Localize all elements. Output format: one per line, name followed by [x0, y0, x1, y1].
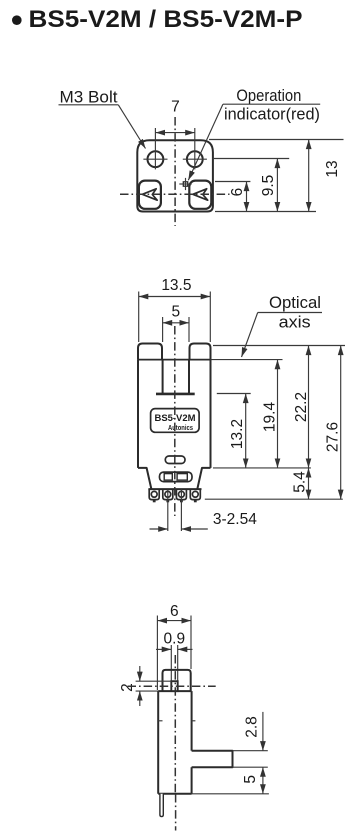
svg-text:5: 5	[171, 304, 180, 321]
pin tabs with circles	[149, 489, 159, 502]
svg-text:0.9: 0.9	[164, 631, 186, 648]
svg-text:3-2.54: 3-2.54	[213, 511, 257, 528]
optical element right square	[189, 181, 211, 209]
optical element left square	[139, 181, 161, 209]
svg-text:13.2: 13.2	[229, 419, 246, 449]
svg-text:9.5: 9.5	[260, 175, 277, 197]
side view optical axis centerline	[128, 685, 216, 687]
front view right prong cap	[190, 344, 211, 360]
bottom shoulders and taper	[138, 468, 211, 489]
dimension 0.9	[156, 631, 193, 682]
svg-text:6: 6	[170, 603, 179, 620]
side view shoulder	[158, 690, 191, 692]
dimension 19.4	[262, 360, 279, 468]
dimension 2.8	[233, 712, 268, 767]
front view outer walls	[138, 360, 211, 468]
side view main body	[158, 691, 191, 794]
dimension 5 front	[163, 304, 189, 343]
top view body outline	[137, 140, 213, 211]
bolt hole right circle	[183, 128, 207, 169]
dimension 5.4	[213, 468, 311, 499]
svg-text:7: 7	[171, 99, 180, 116]
top view horizontal centerline	[120, 193, 230, 195]
side mounting tab	[192, 751, 233, 768]
svg-text:Autonics: Autonics	[168, 425, 193, 432]
dimension 2	[119, 666, 171, 706]
side view vertical centerline	[174, 655, 176, 794]
dimension 22.2	[213, 346, 345, 468]
svg-text:axis: axis	[279, 314, 311, 332]
M3 Bolt label	[59, 89, 146, 149]
Operation indicator label	[188, 87, 320, 180]
slot bottom	[156, 393, 195, 396]
dimension 3-2.54	[150, 490, 258, 532]
svg-text:5: 5	[242, 775, 259, 784]
bolt hole left circle	[143, 128, 167, 169]
svg-text:Optical: Optical	[269, 294, 321, 312]
side view cap	[163, 670, 191, 691]
dimension 6 top view	[215, 182, 250, 212]
label plate BS5-V2M Autonics	[151, 409, 200, 433]
svg-text:2: 2	[119, 683, 136, 692]
front view vertical centerline	[174, 326, 176, 516]
dimension 6 side	[157, 603, 191, 690]
svg-text:6: 6	[229, 188, 246, 197]
front view slot inner walls	[163, 360, 189, 394]
dimension 13.2	[217, 394, 251, 468]
mold tick marks	[158, 720, 195, 722]
svg-text:indicator(red): indicator(red)	[224, 106, 320, 124]
svg-text:BS5-V2M / BS5-V2M-P: BS5-V2M / BS5-V2M-P	[29, 6, 303, 33]
dimension 5 side	[192, 767, 269, 794]
svg-text:2.8: 2.8	[244, 716, 261, 738]
svg-text:5.4: 5.4	[292, 471, 309, 493]
svg-text:M3 Bolt: M3 Bolt	[60, 89, 118, 107]
front view left prong cap	[138, 344, 162, 360]
dimension 9.5 top view	[213, 159, 290, 212]
operation indicator crosshatch	[179, 178, 191, 190]
top view vertical centerline	[174, 117, 176, 226]
dimension 13.5	[139, 277, 211, 342]
dimension 7	[155, 99, 194, 133]
dimension 27.6	[205, 346, 343, 500]
svg-text:22.2: 22.2	[293, 392, 310, 422]
Optical axis label	[242, 294, 323, 357]
svg-text:13: 13	[324, 160, 341, 177]
optical axis line across body	[138, 359, 211, 361]
svg-text:Operation: Operation	[236, 87, 301, 105]
lens square	[171, 681, 177, 691]
svg-text:19.4: 19.4	[262, 402, 279, 433]
pin	[160, 794, 163, 817]
small slot	[165, 456, 185, 464]
svg-text:27.6: 27.6	[325, 422, 342, 452]
title bullet	[12, 15, 22, 25]
dimension 13 top view	[209, 140, 344, 212]
connector slot	[160, 472, 193, 482]
svg-text:13.5: 13.5	[161, 277, 191, 294]
